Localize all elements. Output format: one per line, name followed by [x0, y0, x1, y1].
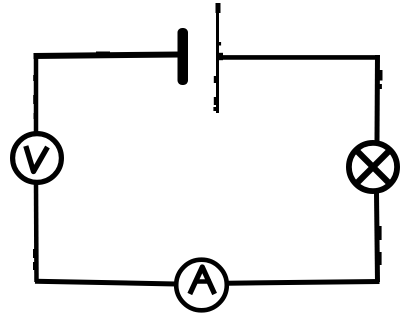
wire right vertical upper	[377, 55, 383, 141]
lamp L1 cross stroke 1	[356, 150, 391, 185]
wire bottom-right horizontal	[227, 282, 380, 284]
node junction battery-positive to top-right wire	[217, 53, 224, 60]
wire top-left horizontal	[34, 52, 181, 57]
lamp L1 cross stroke 2	[356, 150, 391, 185]
ammeter A1 letter A crossbar	[194, 279, 211, 284]
ammeter A1 letter A legs	[190, 267, 215, 294]
battery B1 positive plate (thin line)	[213, 3, 221, 113]
wire top-right horizontal	[218, 55, 379, 60]
ammeter A1	[176, 260, 227, 311]
voltmeter V1	[13, 134, 62, 183]
wire left vertical upper	[33, 53, 36, 133]
battery B1 negative plate (thick bar)	[178, 28, 189, 85]
lamp L1	[349, 143, 397, 191]
wire right vertical lower	[377, 193, 382, 282]
voltmeter V1 letter V	[26, 146, 48, 172]
wire bottom-left horizontal	[35, 281, 176, 284]
wire left vertical lower	[33, 184, 37, 282]
